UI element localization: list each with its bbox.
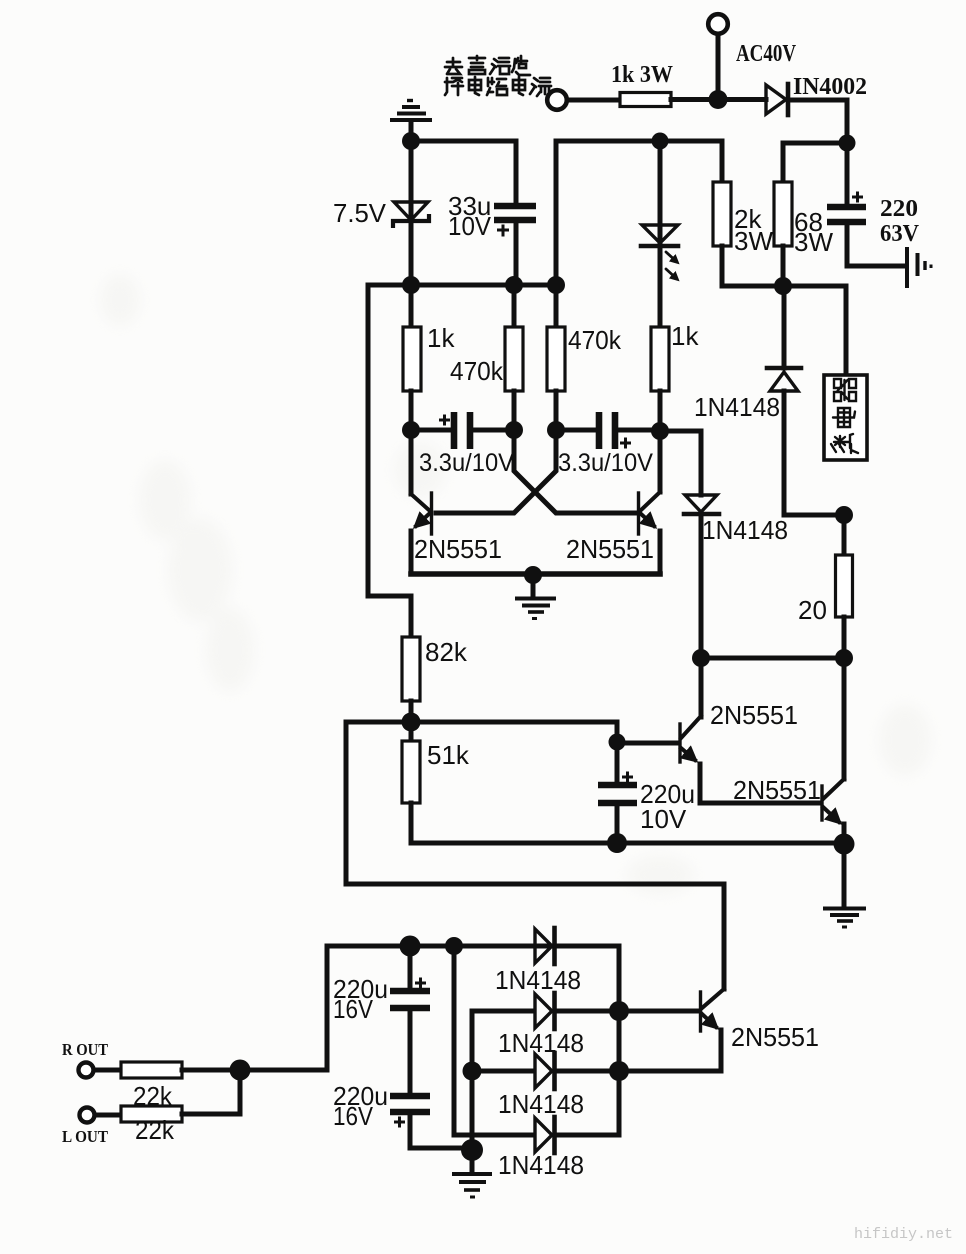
- capacitor C6 220u 16V: [408, 946, 413, 987]
- junction ground node: [461, 1139, 483, 1161]
- wire Q5 emitter row: [619, 1069, 721, 1074]
- junction relay bottom node: [835, 506, 853, 524]
- svg-text:1N4148: 1N4148: [498, 1089, 584, 1119]
- junction rail2 at 470k#1: [505, 276, 523, 294]
- ground right (rotated): [907, 247, 931, 288]
- junction rail2 at 1k: [402, 276, 420, 294]
- wire node I rail to Q3 base branch: [346, 722, 617, 742]
- wire node to R4: [842, 515, 847, 555]
- terminal AC input: [708, 14, 728, 34]
- capacitor C3 3.3u/10V: [411, 428, 450, 433]
- wire 68 bottom to node B: [781, 246, 786, 286]
- wire R12 to node K: [182, 1070, 240, 1114]
- wire node C rail left: [701, 656, 844, 661]
- capacitor C4 3.3u/10V: [556, 428, 595, 433]
- relay coil K1: [844, 286, 849, 375]
- transistor Q1 2N5551: [430, 493, 433, 534]
- wire row4 drop: [454, 946, 534, 1135]
- wire rail1b-right: [783, 141, 847, 146]
- terminal R OUT: [79, 1063, 94, 1078]
- capacitor C5 220u 10V: [615, 742, 620, 781]
- wire R8 to node H: [658, 391, 663, 431]
- wire R5 to node E: [409, 391, 414, 430]
- transistor Q3 2N5551: [678, 724, 681, 762]
- diode D3 1N4148: [685, 495, 717, 512]
- resistor R12 22k: [121, 1106, 182, 1122]
- svg-text:20: 20: [798, 595, 827, 625]
- junction node B: [774, 277, 792, 295]
- wire rail2 to R6: [512, 285, 517, 327]
- svg-text:1N4148: 1N4148: [702, 515, 788, 545]
- diode D2 1N4148 (flyback): [767, 366, 801, 371]
- svg-text:10V: 10V: [448, 211, 492, 241]
- wire bottom rail of monostable: [411, 841, 844, 846]
- junction node G: [547, 421, 565, 439]
- diode D6 1N4148 row2: [535, 994, 552, 1028]
- svg-text:3.3u/10V: 3.3u/10V: [558, 449, 653, 477]
- junction node H: [651, 422, 669, 440]
- diode D7 1N4148 row3: [472, 1069, 534, 1074]
- svg-text:2N5551: 2N5551: [710, 700, 798, 730]
- wire AC terminal to node: [716, 35, 721, 99]
- diode D4 1N4148 row1: [535, 929, 552, 963]
- resistor R8 1k right: [651, 327, 669, 391]
- wire terminal to R1: [568, 98, 620, 103]
- transistor Q2 2N5551: [637, 493, 640, 534]
- svg-text:10V: 10V: [640, 804, 687, 834]
- wire node G cross-couple to Q1 base: [436, 430, 556, 513]
- junction node D: [692, 649, 710, 667]
- junction node K: [230, 1060, 251, 1081]
- svg-text:1N4148: 1N4148: [498, 1150, 584, 1180]
- wire 68 branch down: [781, 143, 786, 182]
- wire R OUT to R11: [94, 1068, 121, 1073]
- wire rail1b-left corner down: [554, 141, 559, 285]
- junction node F: [505, 421, 523, 439]
- wire Q3 base: [617, 741, 677, 746]
- wire flip-flop emitter rail: [411, 571, 660, 577]
- junction emitter rail: [524, 566, 542, 584]
- svg-text:2N5551: 2N5551: [566, 534, 654, 564]
- wire L OUT to R12: [95, 1113, 121, 1118]
- svg-text:R OUT: R OUT: [62, 1040, 109, 1059]
- svg-text:1k: 1k: [671, 321, 699, 351]
- junction node top-left rail: [402, 132, 420, 150]
- wire node I left corner down: [344, 722, 349, 884]
- ground Q4 emitter: [823, 844, 866, 927]
- wire 2k bottom to node B: [722, 246, 846, 286]
- junction node J: [609, 734, 626, 751]
- svg-text:1k 3W: 1k 3W: [611, 62, 673, 88]
- svg-text:AC40V: AC40V: [736, 41, 797, 67]
- wire mute line long: [346, 884, 724, 989]
- wire node B down to D2: [782, 286, 787, 368]
- wire R11 to node K: [182, 1068, 240, 1073]
- resistor R4 20: [836, 555, 853, 617]
- wire row4 right: [556, 1133, 619, 1138]
- wire node K up to detect rail: [240, 946, 327, 1070]
- ground bottom: [452, 1150, 492, 1197]
- label 继电器 (fake glyphs, rotated): [831, 379, 858, 453]
- wire R10 bottom to rail: [409, 803, 414, 843]
- diode D1 IN4002: [766, 85, 786, 114]
- junction C6 top: [400, 936, 421, 957]
- resistor R5 1k: [403, 327, 421, 391]
- svg-text:2N5551: 2N5551: [414, 534, 502, 564]
- label 择电路电源 (fake glyph row 2): [445, 77, 551, 96]
- wire row2 left drop: [472, 1009, 534, 1014]
- svg-text:1N4148: 1N4148: [694, 392, 780, 422]
- resistor R2 2k 3W: [713, 182, 731, 246]
- junction rail2 right end: [547, 276, 565, 294]
- svg-text:82k: 82k: [425, 637, 468, 667]
- svg-text:470k: 470k: [568, 325, 622, 355]
- svg-text:3.3u/10V: 3.3u/10V: [419, 449, 514, 477]
- wire rail2 to R5: [409, 285, 414, 327]
- zener ZD1 7.5V: [409, 141, 414, 285]
- wire Q5 base: [619, 1009, 698, 1014]
- wire row2 right: [556, 1009, 619, 1014]
- svg-text:3W: 3W: [794, 227, 833, 257]
- junction row2: [609, 1001, 629, 1021]
- svg-text:63V: 63V: [880, 221, 920, 247]
- svg-text:470k: 470k: [450, 356, 504, 386]
- wire R1 to node AC: [671, 97, 766, 102]
- wire R6 to node F: [512, 391, 517, 430]
- wire R7 to node G: [554, 391, 559, 430]
- svg-text:16V: 16V: [333, 994, 374, 1024]
- junction C5 bottom: [607, 833, 627, 853]
- wire row3 right: [556, 1069, 619, 1074]
- wire R4 bottom to node C: [842, 617, 847, 658]
- resistor R3 68 3W: [774, 182, 792, 246]
- wire rail2: [368, 283, 556, 288]
- svg-text:IN4002: IN4002: [793, 74, 867, 100]
- svg-text:1k: 1k: [427, 323, 455, 353]
- label 去音源选 (fake glyph row 1): [445, 56, 530, 75]
- wire D3 to node D: [699, 514, 704, 658]
- junction row4 branch: [445, 937, 463, 955]
- svg-text:hifidiy.net: hifidiy.net: [854, 1226, 953, 1243]
- svg-text:22k: 22k: [135, 1115, 175, 1145]
- junction LED branch: [652, 133, 669, 150]
- svg-text:1N4148: 1N4148: [495, 965, 581, 995]
- junction node C: [835, 649, 853, 667]
- wire D1 to +V corner: [789, 100, 847, 143]
- resistor R7 470k: [547, 327, 565, 391]
- junction row3: [609, 1061, 629, 1081]
- svg-text:2N5551: 2N5551: [733, 775, 821, 805]
- transistor Q5 2N5551: [699, 992, 702, 1031]
- junction Q4 emitter node: [834, 834, 855, 855]
- wire row1 to drop: [617, 946, 622, 1135]
- wire R9 to node I: [409, 701, 414, 741]
- terminal to source-select supply: [547, 90, 567, 110]
- capacitor C1 33u 10V: [494, 203, 536, 210]
- terminal L OUT: [80, 1108, 95, 1123]
- ground flip-flop: [515, 575, 556, 619]
- svg-text:220: 220: [880, 196, 918, 222]
- svg-text:3W: 3W: [734, 226, 773, 256]
- junction row3 left: [463, 1062, 482, 1081]
- wire node D down to Q3 collector: [699, 658, 704, 717]
- wire node F cross-couple to Q2 base: [514, 430, 637, 513]
- junction node E: [402, 421, 420, 439]
- capacitor C2 220u 63V: [845, 143, 850, 203]
- wire node C down to Q4 collector: [842, 658, 847, 779]
- transistor Q4 2N5551: [820, 786, 823, 820]
- wire left supply drop: [368, 285, 411, 637]
- svg-text:16V: 16V: [333, 1101, 374, 1131]
- svg-text:1N4148: 1N4148: [498, 1028, 584, 1058]
- wire rail1a corner down to C1: [514, 141, 519, 203]
- wire rail2 to R7: [554, 285, 559, 327]
- ground top (inverted): [390, 101, 432, 142]
- wire node H to D3 branch: [660, 431, 701, 495]
- LED D5: [658, 141, 663, 327]
- wire rail1b-left: [556, 141, 722, 182]
- resistor R10 51k: [402, 741, 420, 803]
- capacitor C7 220u 16V: [390, 1093, 430, 1100]
- junction node I: [402, 713, 421, 732]
- wire rail1a: [411, 139, 516, 144]
- junction +V node: [839, 135, 856, 152]
- resistor R11 22k: [121, 1062, 182, 1078]
- svg-text:L OUT: L OUT: [62, 1127, 109, 1146]
- resistor R6 470k: [505, 327, 523, 391]
- svg-text:7.5V: 7.5V: [333, 198, 387, 228]
- resistor R9 82k: [402, 637, 420, 701]
- svg-text:2N5551: 2N5551: [731, 1022, 819, 1052]
- wire detect rail: [327, 944, 619, 949]
- resistor R1 1k 3W: [620, 93, 671, 107]
- junction node AC: [709, 90, 728, 109]
- svg-text:51k: 51k: [427, 740, 470, 770]
- diode D8 1N4148 row4: [535, 1118, 552, 1152]
